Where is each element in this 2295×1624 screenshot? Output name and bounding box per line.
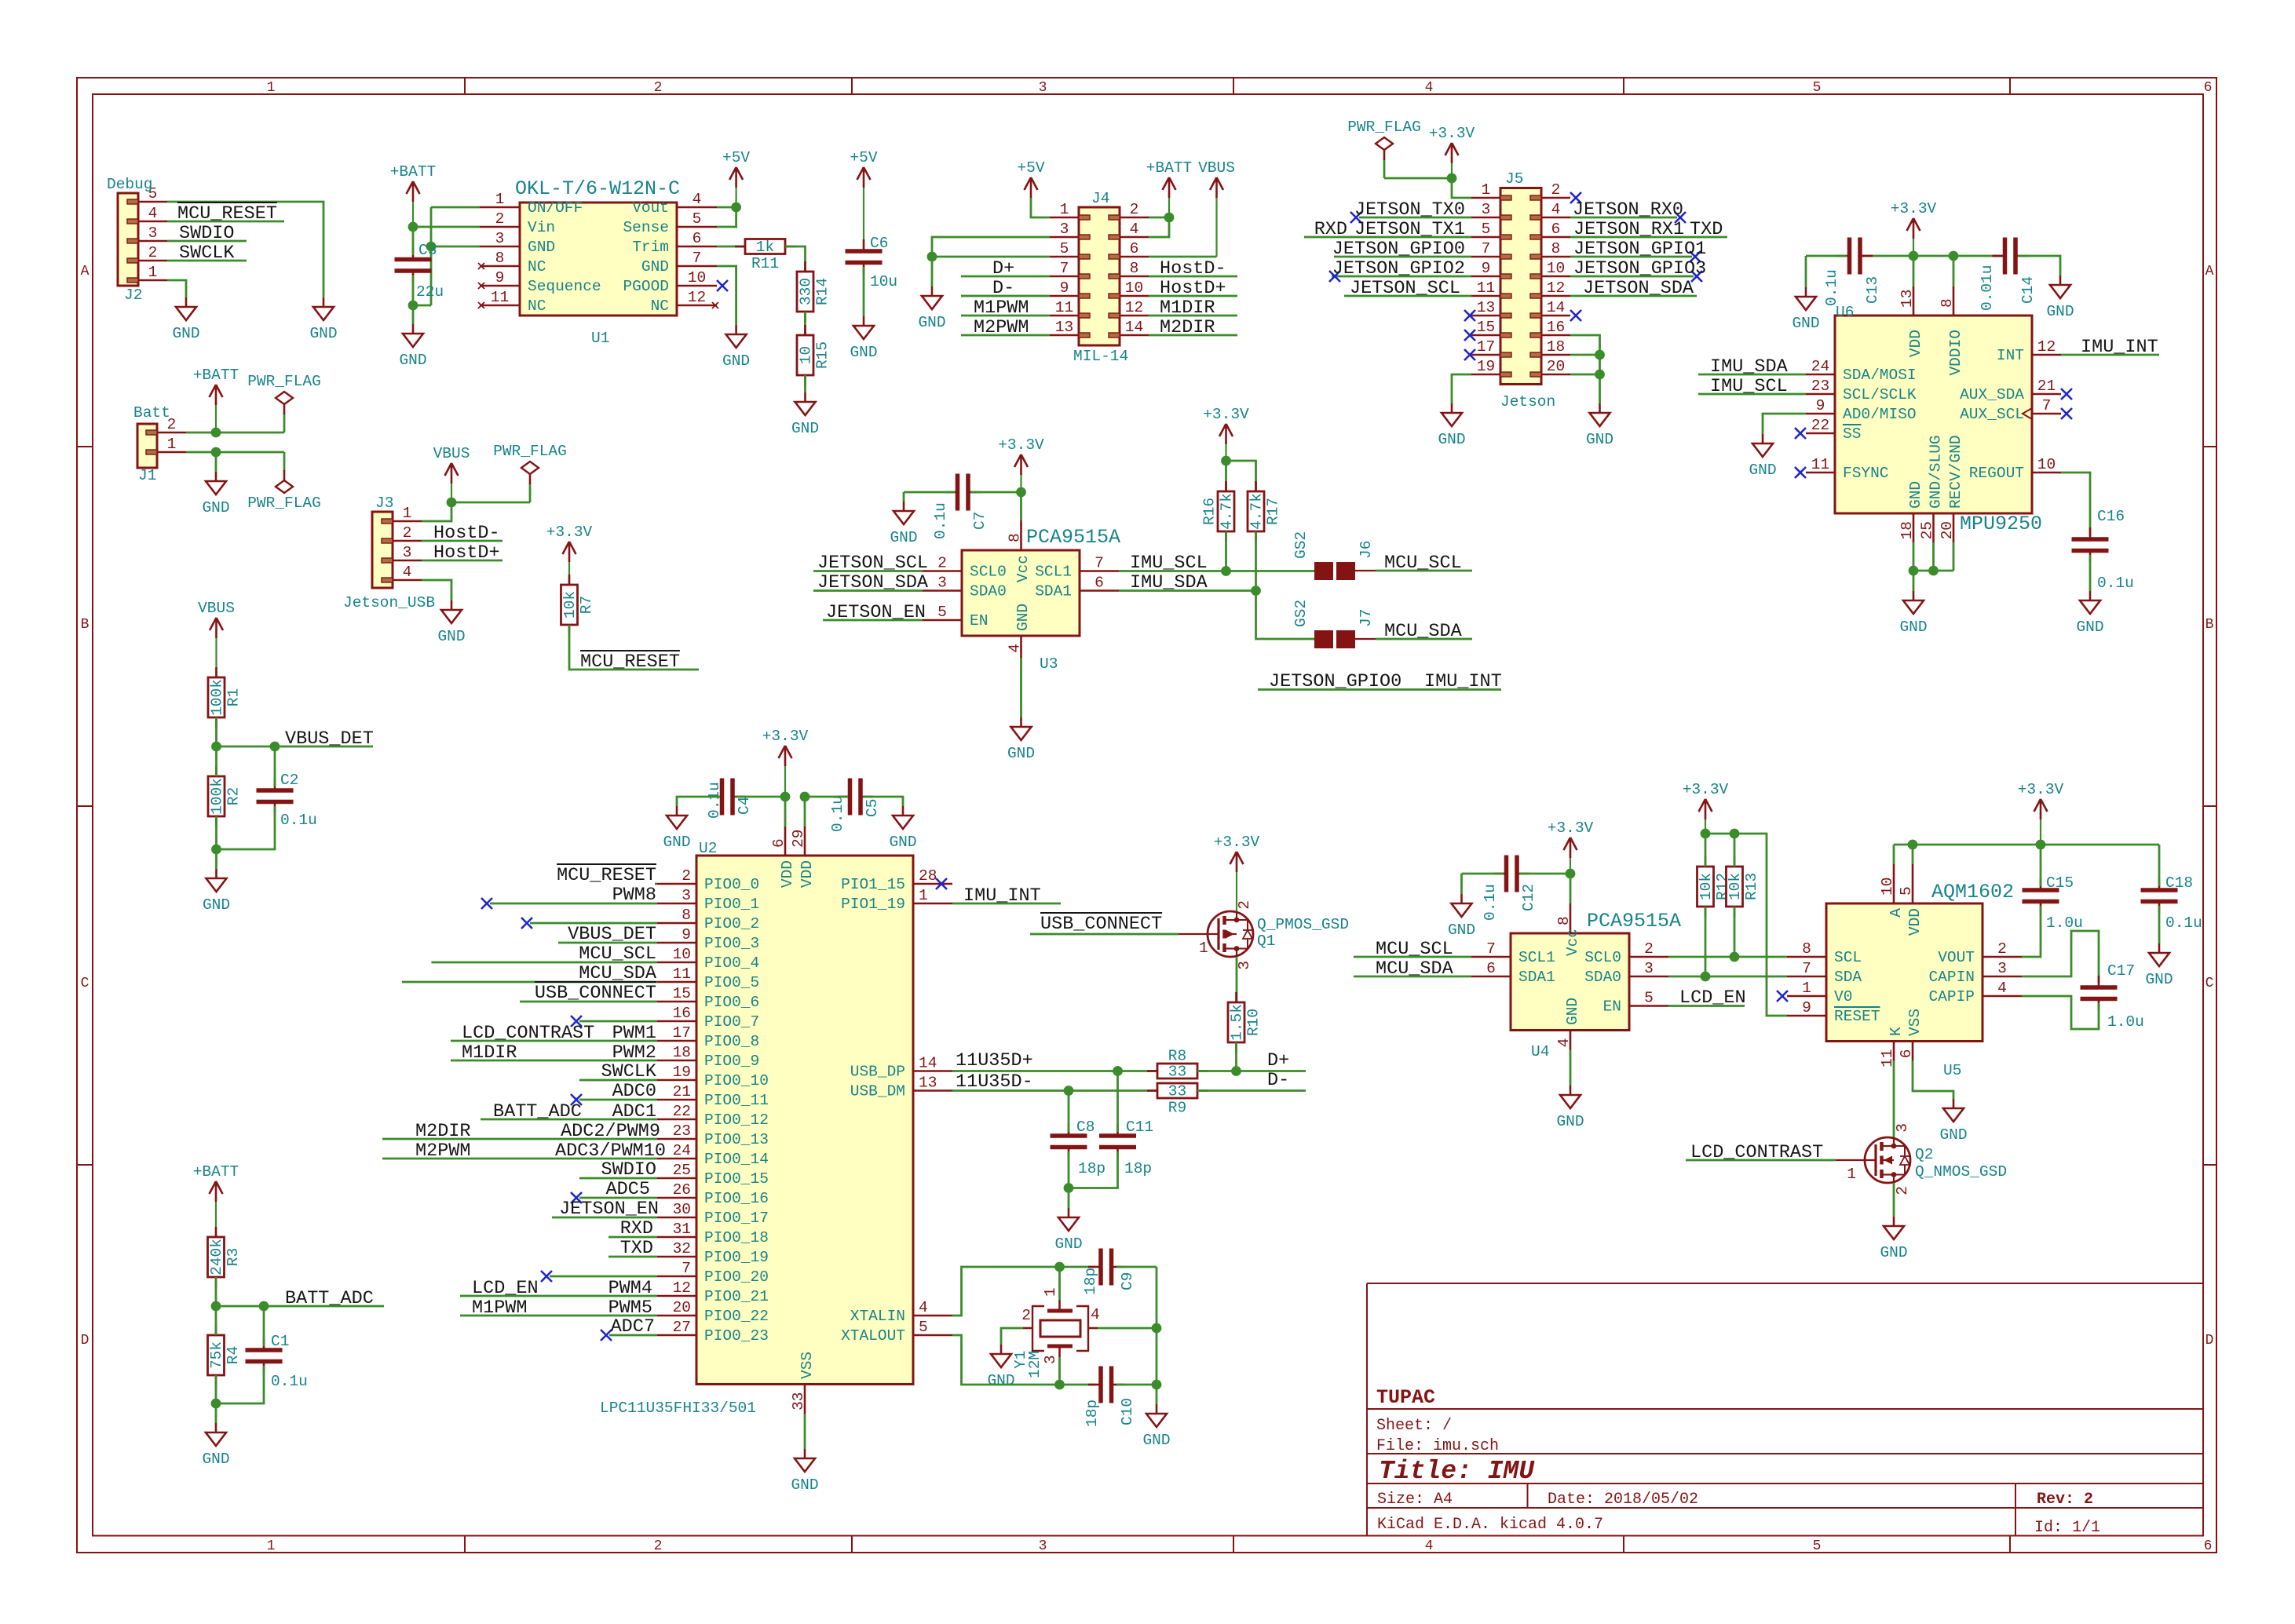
- svg-text:240k: 240k: [208, 1239, 225, 1275]
- svg-text:C13: C13: [1864, 276, 1881, 304]
- capacitor C4: [706, 779, 753, 819]
- connector J5 Jetson: [1471, 170, 1570, 411]
- svg-text:11U35D-: 11U35D-: [956, 1071, 1033, 1093]
- svg-text:+5V: +5V: [850, 149, 877, 166]
- svg-text:SCL0: SCL0: [1584, 949, 1621, 966]
- svg-text:+5V: +5V: [1017, 159, 1044, 177]
- svg-text:2: 2: [403, 524, 412, 542]
- power +3.3V: [1891, 200, 1937, 256]
- svg-text:Q_NMOS_GSD: Q_NMOS_GSD: [1915, 1163, 2007, 1181]
- svg-text:7: 7: [1060, 260, 1069, 277]
- wire USB_DM 11U35D-: [952, 1089, 1157, 1092]
- wire R4 C1 to GND: [215, 1375, 217, 1423]
- junction: [1164, 213, 1175, 223]
- svg-text:9: 9: [1816, 397, 1825, 414]
- svg-text:SCL/SCLK: SCL/SCLK: [1843, 386, 1917, 403]
- wire SDA down to J7: [1256, 591, 1315, 640]
- svg-text:GND: GND: [1007, 745, 1035, 762]
- wire Q2 source GND: [1893, 1183, 1895, 1217]
- junction: [1064, 1086, 1074, 1096]
- wire to pin4: [1149, 217, 1169, 237]
- svg-text:GND: GND: [889, 834, 916, 851]
- svg-text:U4: U4: [1531, 1043, 1549, 1060]
- svg-text:R15: R15: [814, 341, 831, 369]
- svg-text:File: imu.sch: File: imu.sch: [1376, 1437, 1499, 1455]
- svg-text:3: 3: [1042, 1355, 1059, 1364]
- wire J6 right MCU_SCL: [1355, 570, 1376, 571]
- svg-text:VDDIO: VDDIO: [1947, 330, 1964, 376]
- svg-text:PIO0_15: PIO0_15: [704, 1170, 769, 1188]
- svg-text:1.0u: 1.0u: [2046, 914, 2083, 932]
- svg-text:1: 1: [403, 505, 412, 522]
- svg-text:23: 23: [1811, 378, 1829, 395]
- svg-text:GND: GND: [918, 314, 945, 331]
- capacitor C7: [932, 474, 989, 540]
- svg-text:SWCLK: SWCLK: [601, 1061, 656, 1082]
- svg-text:HostD-: HostD-: [1160, 258, 1226, 279]
- svg-text:C18: C18: [2165, 874, 2193, 892]
- svg-text:B: B: [2205, 617, 2214, 633]
- svg-text:11U35D+: 11U35D+: [956, 1050, 1033, 1071]
- svg-text:100k: 100k: [209, 778, 226, 815]
- svg-text:18p: 18p: [1078, 1160, 1105, 1177]
- svg-text:17: 17: [673, 1024, 691, 1042]
- svg-text:PCA9515A: PCA9515A: [1587, 910, 1681, 932]
- svg-text:PWR_FLAG: PWR_FLAG: [1347, 119, 1421, 136]
- svg-text:USB_DP: USB_DP: [850, 1064, 905, 1081]
- svg-text:2: 2: [495, 210, 505, 228]
- svg-text:GND: GND: [1448, 921, 1475, 939]
- svg-text:M1PWM: M1PWM: [974, 297, 1029, 319]
- svg-text:0.1u: 0.1u: [280, 812, 317, 829]
- resistor R1: [208, 667, 243, 728]
- no-connect: [541, 1271, 552, 1282]
- svg-text:5: 5: [1644, 990, 1654, 1007]
- svg-text:MIL-14: MIL-14: [1073, 348, 1128, 365]
- svg-text:18: 18: [673, 1044, 691, 1061]
- svg-text:MCU_RESET: MCU_RESET: [177, 203, 277, 224]
- capacitor C16: [2072, 508, 2134, 592]
- no-connect: [481, 898, 492, 909]
- wire J1 pin1 GND: [186, 451, 284, 454]
- wire R12 bottom: [1705, 907, 1707, 976]
- svg-text:11: 11: [491, 289, 509, 306]
- svg-text:4: 4: [1130, 221, 1139, 238]
- junction: [211, 428, 221, 438]
- wire R4 top: [215, 1306, 217, 1335]
- wire Y1 pin4: [1088, 1327, 1098, 1330]
- svg-text:14: 14: [1547, 299, 1565, 316]
- wire Sense: [717, 207, 736, 227]
- svg-text:1: 1: [1802, 980, 1811, 997]
- junction: [1730, 829, 1740, 839]
- svg-text:4: 4: [919, 1299, 928, 1316]
- resistor R7: [561, 575, 596, 635]
- svg-text:GND: GND: [309, 325, 337, 342]
- wire INT IMU_INT: [2061, 354, 2159, 356]
- wire C8 top: [1068, 1091, 1070, 1133]
- power +5V: [850, 149, 877, 246]
- svg-text:33: 33: [1168, 1083, 1186, 1100]
- svg-text:21: 21: [673, 1083, 691, 1100]
- svg-text:PWR_FLAG: PWR_FLAG: [247, 494, 321, 512]
- svg-text:PIO0_11: PIO0_11: [704, 1092, 769, 1109]
- svg-text:SDA: SDA: [1834, 969, 1862, 986]
- svg-text:GND: GND: [203, 896, 230, 914]
- power +BATT: [390, 163, 437, 227]
- svg-text:MCU_SCL: MCU_SCL: [1384, 553, 1462, 574]
- svg-text:R3: R3: [225, 1248, 242, 1266]
- junction: [1447, 173, 1457, 184]
- svg-text:C15: C15: [2046, 874, 2074, 892]
- ground: [722, 325, 750, 370]
- svg-text:JETSON_TX0: JETSON_TX0: [1354, 199, 1465, 221]
- svg-text:5: 5: [693, 210, 702, 228]
- svg-text:Date: 2018/05/02: Date: 2018/05/02: [1548, 1491, 1698, 1509]
- svg-text:M2PWM: M2PWM: [415, 1140, 471, 1162]
- svg-text:J7: J7: [1358, 609, 1375, 627]
- svg-text:VSS: VSS: [798, 1352, 816, 1379]
- svg-text:VBUS_DET: VBUS_DET: [285, 728, 374, 750]
- wire pin5 stub: [1912, 845, 1914, 864]
- svg-text:13: 13: [919, 1075, 937, 1092]
- wire +5V to pin1: [1031, 198, 1050, 217]
- resistor R14: [797, 261, 831, 322]
- junction: [1595, 350, 1605, 360]
- wire pin9 to GND: [1763, 414, 1806, 434]
- svg-text:GND: GND: [1586, 431, 1613, 448]
- ground: [1054, 1208, 1082, 1253]
- svg-text:3: 3: [1997, 960, 2007, 977]
- no-connect: [2061, 389, 2072, 400]
- power +3.3V: [1214, 834, 1260, 911]
- svg-text:A: A: [2205, 264, 2214, 279]
- svg-text:4.7k: 4.7k: [1219, 493, 1236, 530]
- svg-text:GND: GND: [1054, 1235, 1082, 1253]
- svg-text:8: 8: [1007, 533, 1024, 542]
- svg-text:15: 15: [1477, 319, 1495, 336]
- svg-text:USB_CONNECT: USB_CONNECT: [535, 983, 656, 1004]
- svg-text:4: 4: [1091, 1306, 1100, 1323]
- jumper J6 GS2: [1292, 531, 1375, 580]
- wire pin5 RXD JETSON_TX1: [1304, 236, 1471, 239]
- resistor R13: [1727, 856, 1761, 917]
- connector J2 Debug: [107, 176, 167, 304]
- svg-text:SCL1: SCL1: [1035, 564, 1072, 581]
- capacitor C17: [2081, 976, 2118, 1011]
- wire pin10 stub: [1893, 845, 1895, 864]
- svg-text:2: 2: [1236, 900, 1253, 910]
- wire J2 pin1 to GND: [167, 280, 186, 297]
- svg-text:C17: C17: [2107, 962, 2135, 980]
- ground: [1438, 403, 1465, 448]
- svg-text:KiCad E.D.A. kicad 4.0.7: KiCad E.D.A. kicad 4.0.7: [1377, 1516, 1603, 1534]
- junction: [211, 1399, 221, 1409]
- wire C15 bottom to VOUT: [2022, 906, 2041, 957]
- svg-text:1: 1: [267, 1538, 276, 1554]
- capacitor C14: [1979, 238, 2037, 312]
- svg-text:13: 13: [1055, 319, 1073, 336]
- svg-text:JETSON_SCL: JETSON_SCL: [817, 553, 928, 574]
- wire M2DIR ADC2/PWM9: [382, 1138, 657, 1140]
- svg-text:M1PWM: M1PWM: [472, 1297, 528, 1319]
- svg-text:PIO1_15: PIO1_15: [841, 876, 905, 893]
- svg-text:C11: C11: [1126, 1119, 1153, 1136]
- svg-text:U1: U1: [591, 330, 609, 347]
- wire JETSON_EN U3: [823, 619, 923, 622]
- svg-text:3: 3: [148, 224, 158, 242]
- junction: [1231, 1066, 1241, 1076]
- wire pin4 GND: [422, 580, 451, 600]
- svg-text:PIO0_14: PIO0_14: [704, 1151, 769, 1168]
- junction: [927, 252, 937, 262]
- power +5V: [1017, 159, 1044, 198]
- svg-text:18p: 18p: [1082, 1268, 1099, 1295]
- wire C4 to GND: [677, 797, 720, 806]
- power +BATT: [193, 367, 239, 432]
- ground: [889, 806, 916, 851]
- svg-text:SCL: SCL: [1834, 949, 1862, 966]
- IC U2 LPC11U35FHI33/501: [600, 827, 952, 1417]
- svg-text:VBUS_DET: VBUS_DET: [568, 924, 656, 945]
- wire Y1 pin1: [1058, 1267, 1061, 1300]
- junction: [1949, 251, 1959, 261]
- svg-text:10: 10: [2037, 456, 2056, 473]
- svg-text:PIO0_16: PIO0_16: [704, 1190, 769, 1207]
- svg-text:TXD: TXD: [620, 1238, 653, 1259]
- svg-text:MCU_SCL: MCU_SCL: [579, 943, 656, 965]
- svg-text:28: 28: [919, 867, 937, 885]
- svg-text:J3: J3: [375, 494, 393, 512]
- junction: [1909, 566, 1919, 576]
- wire C2 top: [274, 746, 276, 786]
- svg-text:10: 10: [1125, 279, 1143, 297]
- wire C5 left: [805, 796, 848, 798]
- svg-text:MCU_SCL: MCU_SCL: [1376, 939, 1453, 960]
- wire M1PWM to pin11: [961, 315, 1050, 317]
- svg-text:GND: GND: [987, 1372, 1014, 1389]
- ground: [1792, 287, 1819, 332]
- svg-text:GND: GND: [1899, 619, 1927, 636]
- svg-text:0.1u: 0.1u: [932, 502, 949, 539]
- no-connect: [1795, 428, 1806, 439]
- wire R9 to D-: [1197, 1089, 1306, 1092]
- svg-text:PIO0_20: PIO0_20: [704, 1268, 769, 1286]
- svg-text:PWM8: PWM8: [612, 885, 656, 906]
- svg-text:IMU_INT: IMU_INT: [2081, 337, 2158, 358]
- ground: [2076, 591, 2103, 636]
- svg-text:10k: 10k: [1697, 873, 1715, 900]
- svg-text:2: 2: [1130, 201, 1139, 218]
- svg-text:4: 4: [403, 564, 412, 581]
- junction: [1152, 1380, 1162, 1390]
- svg-text:3: 3: [403, 544, 412, 561]
- svg-text:+3.3V: +3.3V: [546, 524, 593, 541]
- ground: [1448, 894, 1475, 939]
- junction: [800, 792, 810, 802]
- svg-text:VDD: VDD: [1907, 330, 1924, 357]
- junction: [270, 742, 280, 752]
- svg-text:+BATT: +BATT: [193, 367, 239, 384]
- svg-text:GND: GND: [1564, 998, 1581, 1025]
- wire C14 to GND: [2018, 256, 2060, 276]
- svg-text:7: 7: [1095, 555, 1104, 572]
- svg-text:JETSON_GPIO0: JETSON_GPIO0: [1332, 239, 1465, 260]
- ground: [1007, 717, 1035, 762]
- power +3.3V: [2018, 781, 2064, 845]
- svg-text:1.0u: 1.0u: [2107, 1013, 2144, 1031]
- power PWR_FLAG: [493, 443, 567, 502]
- svg-text:MCU_RESET: MCU_RESET: [580, 651, 680, 673]
- svg-text:PIO0_7: PIO0_7: [704, 1013, 759, 1031]
- svg-text:ADC5: ADC5: [606, 1179, 650, 1200]
- junction: [426, 242, 437, 252]
- wire JETSON_SCL U3: [813, 570, 923, 572]
- svg-text:4: 4: [1997, 980, 2007, 997]
- wire TXD: [608, 1256, 657, 1258]
- svg-text:6: 6: [1551, 221, 1561, 238]
- svg-text:0.01u: 0.01u: [1979, 265, 1996, 311]
- wire CAPIN to C17: [2022, 931, 2099, 983]
- wire R8 to D+: [1197, 1070, 1306, 1072]
- svg-text:JETSON_TX1: JETSON_TX1: [1354, 219, 1465, 240]
- svg-text:Vout: Vout: [632, 199, 669, 217]
- svg-text:6: 6: [1095, 575, 1104, 592]
- wire to GND: [1156, 1385, 1158, 1404]
- svg-text:CAPIP: CAPIP: [1928, 988, 1975, 1005]
- svg-text:XTALIN: XTALIN: [850, 1308, 905, 1325]
- svg-text:JETSON_EN: JETSON_EN: [826, 602, 926, 623]
- ground: [791, 1449, 818, 1494]
- wire LCD_CONTRAST to Q2: [1686, 1159, 1836, 1162]
- wire to pin1: [1452, 178, 1471, 198]
- wire pin3 HostD+: [422, 560, 502, 562]
- svg-text:Id: 1/1: Id: 1/1: [2034, 1519, 2100, 1537]
- capacitor C4: [710, 779, 746, 816]
- junction: [1928, 566, 1939, 576]
- svg-text:PIO0_21: PIO0_21: [704, 1288, 769, 1305]
- svg-text:+3.3V: +3.3V: [1891, 200, 1937, 217]
- svg-text:+3.3V: +3.3V: [1203, 406, 1249, 423]
- capacitor C3: [395, 242, 444, 301]
- wire C7 to GND: [904, 491, 955, 494]
- svg-text:26: 26: [673, 1181, 691, 1199]
- svg-text:B: B: [81, 617, 90, 633]
- wire J1 pin2 +BATT: [186, 432, 284, 434]
- svg-text:RXD: RXD: [1314, 219, 1347, 240]
- svg-text:GND: GND: [202, 499, 229, 516]
- svg-text:5: 5: [1482, 221, 1491, 238]
- transistor Q1 Q_PMOS_GSD: [1179, 900, 1349, 970]
- wire to GND: [215, 452, 217, 472]
- wire REGOUT to C16: [2061, 473, 2090, 536]
- svg-text:19: 19: [1477, 358, 1495, 375]
- svg-text:PWM5: PWM5: [608, 1297, 652, 1319]
- wire Q1 source to R10: [1236, 957, 1238, 1002]
- junction: [1909, 251, 1919, 261]
- power +3.3V: [546, 524, 593, 585]
- wire D+ to pin7: [961, 276, 1050, 278]
- svg-text:2: 2: [148, 244, 158, 261]
- svg-text:MCU_SDA: MCU_SDA: [1376, 958, 1454, 980]
- capacitor C18: [2141, 874, 2202, 932]
- svg-text:D: D: [2205, 1333, 2214, 1348]
- svg-text:11: 11: [673, 965, 691, 983]
- svg-text:GND: GND: [2076, 619, 2103, 636]
- svg-text:7: 7: [1486, 940, 1496, 958]
- ground: [1880, 1217, 1907, 1261]
- svg-text:Q_PMOS_GSD: Q_PMOS_GSD: [1257, 916, 1349, 933]
- wire C9 right: [1116, 1266, 1157, 1268]
- wire M2PWM to pin13: [961, 334, 1050, 337]
- svg-text:R7: R7: [578, 596, 595, 614]
- svg-text:D+: D+: [992, 258, 1014, 279]
- junction: [1152, 1323, 1162, 1334]
- svg-text:4: 4: [1551, 201, 1561, 218]
- svg-text:PIO0_5: PIO0_5: [704, 974, 759, 991]
- wire to R17 top: [1226, 461, 1256, 491]
- svg-text:PCA9515A: PCA9515A: [1026, 526, 1120, 549]
- svg-text:SCL1: SCL1: [1518, 949, 1555, 966]
- svg-text:PIO0_13: PIO0_13: [704, 1131, 769, 1148]
- junction: [1251, 586, 1261, 596]
- svg-text:AUX_SCL: AUX_SCL: [1960, 406, 2024, 423]
- wire JETSON_GPIO0 IMU_INT: [1258, 688, 1501, 691]
- capacitor C13: [1837, 238, 1873, 275]
- wire ON/OFF from GND net: [431, 206, 480, 209]
- transistor Q2 Q_NMOS_GSD: [1836, 1123, 2007, 1195]
- ground: [1899, 591, 1927, 636]
- svg-text:8: 8: [1130, 260, 1139, 277]
- svg-text:10: 10: [1879, 878, 1896, 896]
- svg-text:PIO1_19: PIO1_19: [841, 896, 905, 913]
- svg-text:Batt: Batt: [133, 404, 170, 422]
- power PWR_FLAG: [247, 373, 321, 432]
- no-connect: [1675, 212, 1686, 223]
- capacitor C3: [395, 248, 432, 283]
- wire J2 pin4 MCU_RESET: [167, 221, 284, 223]
- svg-text:R13: R13: [1743, 873, 1760, 900]
- capacitor C16: [2072, 527, 2109, 563]
- svg-text:+5V: +5V: [722, 149, 750, 166]
- wire C16 to GND: [2089, 555, 2092, 591]
- svg-text:SDA/MOSI: SDA/MOSI: [1843, 367, 1917, 384]
- wire XTALOUT: [952, 1335, 1095, 1385]
- svg-text:MCU_SDA: MCU_SDA: [579, 963, 657, 984]
- no-connect: [571, 1192, 582, 1203]
- svg-text:R17: R17: [1265, 498, 1282, 525]
- svg-text:GND: GND: [1907, 481, 1924, 509]
- wire VBUS to pin6: [1149, 256, 1217, 258]
- wire pin4 JETSON_RX0: [1570, 217, 1677, 219]
- ground: [663, 806, 690, 851]
- svg-text:C8: C8: [1076, 1119, 1095, 1136]
- wire ADC0: [579, 1099, 657, 1101]
- svg-text:SDA0: SDA0: [1584, 969, 1621, 986]
- svg-text:C9: C9: [1119, 1272, 1136, 1290]
- svg-text:PIO0_3: PIO0_3: [704, 935, 759, 952]
- svg-text:Vcc: Vcc: [1014, 555, 1032, 582]
- svg-text:PIO0_9: PIO0_9: [704, 1053, 759, 1070]
- svg-text:LCD_EN: LCD_EN: [1679, 987, 1746, 1009]
- wire M2PWM ADC3/PWM10: [382, 1158, 657, 1160]
- wire MCU_SCL from R6: [432, 962, 658, 964]
- power +BATT: [1146, 159, 1193, 217]
- svg-text:1: 1: [1199, 940, 1208, 957]
- svg-text:C16: C16: [2097, 508, 2125, 525]
- junction: [1016, 487, 1026, 498]
- svg-text:IMU_INT: IMU_INT: [963, 885, 1041, 907]
